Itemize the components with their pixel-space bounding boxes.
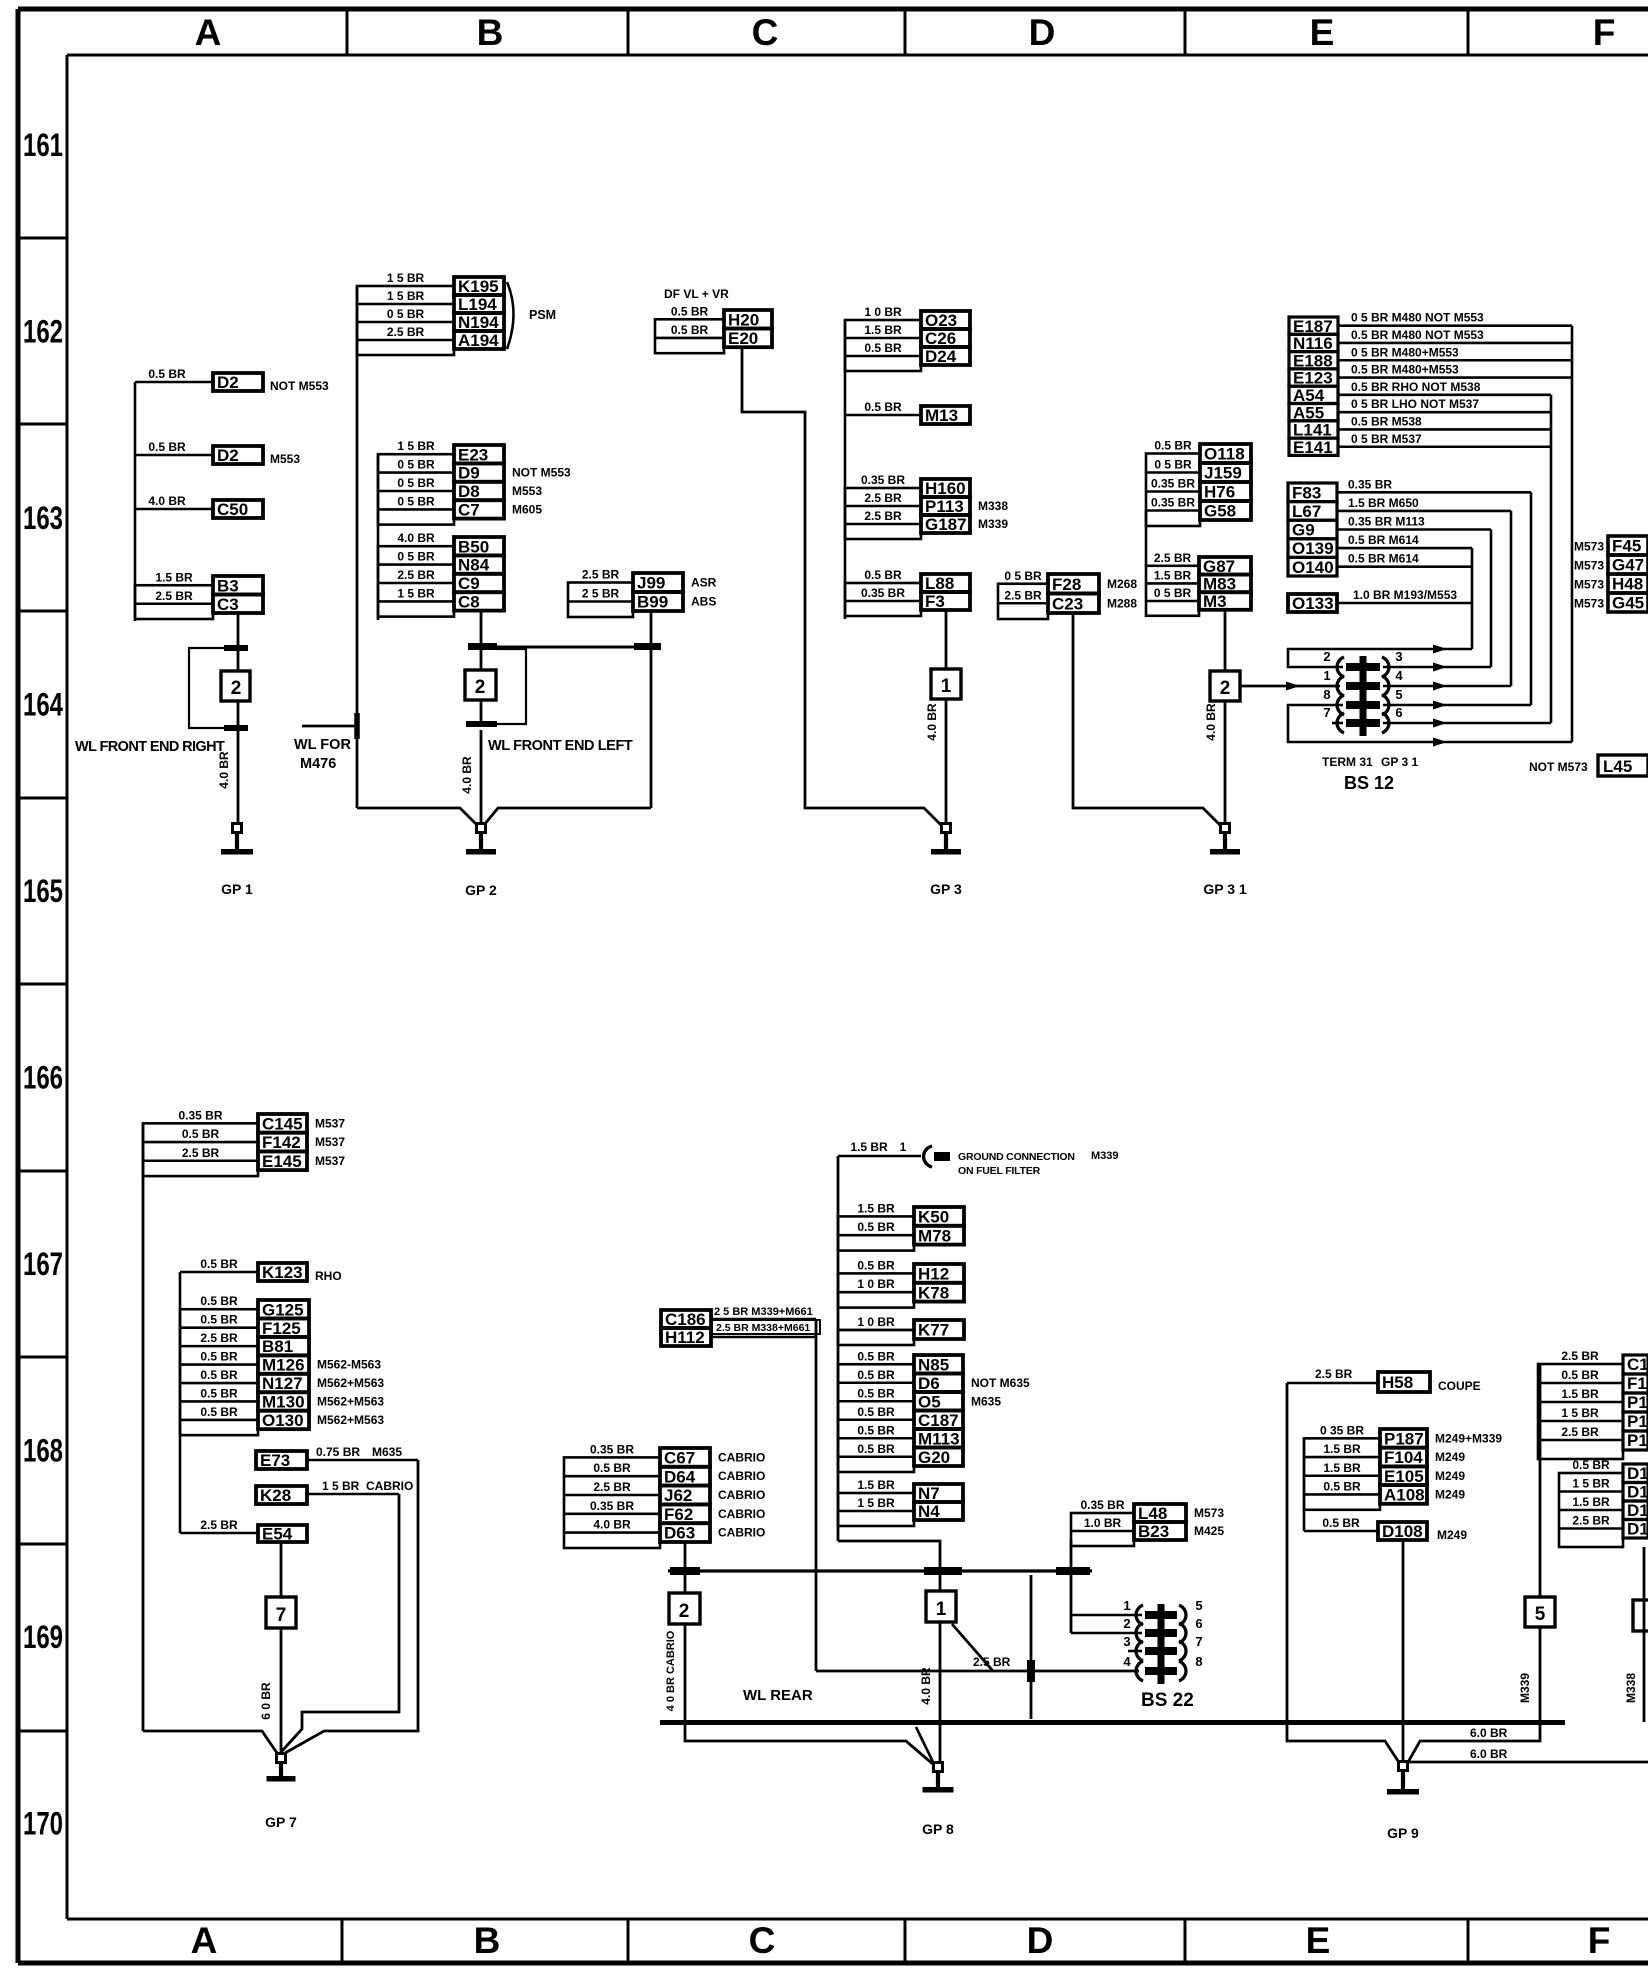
svg-text:GP 8: GP 8 [922, 1821, 954, 1837]
GP3 left bus wire [844, 320, 847, 619]
svg-text:164: 164 [23, 687, 63, 723]
svg-text:D1: D1 [1627, 1464, 1648, 1483]
wire BS12 pin4 [1383, 682, 1511, 691]
wire BS12 pin8 loop [1288, 705, 1572, 747]
terminal D108 [1304, 1516, 1467, 1542]
svg-text:C67: C67 [664, 1449, 695, 1468]
svg-text:1 5 BR: 1 5 BR [1561, 1406, 1599, 1420]
svg-text:F1: F1 [1627, 1374, 1647, 1393]
svg-text:0.5 BR M538: 0.5 BR M538 [1351, 414, 1422, 428]
GP2 left bus wire [356, 286, 359, 808]
wire 2.5 BR BS22 pin4 to connector 1 [816, 1624, 1139, 1682]
wire BS12 pin6 [1383, 719, 1551, 728]
svg-text:0 5 BR: 0 5 BR [387, 307, 425, 321]
connector 2 of GP31 [1210, 671, 1240, 701]
svg-text:0.5 BR: 0.5 BR [1561, 1368, 1599, 1382]
ground GP 1 [221, 824, 253, 898]
svg-text:F: F [1593, 12, 1616, 53]
svg-text:0 5 BR M537: 0 5 BR M537 [1351, 432, 1422, 446]
svg-text:P1: P1 [1627, 1393, 1648, 1412]
svg-text:4.0 BR: 4.0 BR [397, 531, 435, 545]
svg-text:M573: M573 [1574, 578, 1604, 592]
wire BS12 pin3 [1383, 663, 1491, 672]
column header band bottom [191, 1919, 1611, 1963]
svg-text:E54: E54 [262, 1525, 293, 1544]
svg-text:J159: J159 [1204, 464, 1242, 483]
svg-text:2.5 BR: 2.5 BR [1572, 1514, 1610, 1528]
svg-text:0 5 BR LHO NOT M537: 0 5 BR LHO NOT M537 [1351, 397, 1479, 411]
svg-text:M249+M339: M249+M339 [1435, 1431, 1502, 1445]
svg-text:2.5 BR: 2.5 BR [1004, 588, 1042, 602]
terminal stack F45 G47 H48 G45 (M573) [1574, 536, 1648, 613]
svg-text:B: B [474, 1920, 501, 1961]
svg-text:GP 3 1: GP 3 1 [1381, 755, 1418, 769]
svg-text:WL FRONT END LEFT: WL FRONT END LEFT [488, 738, 633, 754]
svg-text:2.5 BR: 2.5 BR [1561, 1349, 1599, 1363]
svg-text:2.5 BR: 2.5 BR [973, 1655, 1011, 1669]
svg-text:5: 5 [1395, 687, 1402, 702]
wire 4.0 BR CABRIO to GP8 bar [665, 1624, 685, 1722]
svg-text:C145: C145 [262, 1114, 303, 1133]
svg-text:2.5 BR: 2.5 BR [397, 568, 435, 582]
svg-text:M573: M573 [1194, 1506, 1224, 1520]
ground GP 2 [465, 824, 497, 899]
svg-text:K77: K77 [918, 1321, 949, 1340]
GP9 left bus wire [1286, 1383, 1289, 1722]
terminal M13 [845, 400, 970, 425]
wire K28 CABRIO to GP7 [282, 1494, 399, 1751]
svg-text:162: 162 [23, 314, 63, 350]
svg-text:B50: B50 [458, 537, 489, 556]
svg-text:H58: H58 [1382, 1373, 1413, 1392]
svg-text:CABRIO: CABRIO [366, 1479, 413, 1493]
svg-text:D1: D1 [1627, 1501, 1648, 1520]
svg-text:1.5 BR: 1.5 BR [1154, 568, 1192, 582]
svg-text:G9: G9 [1292, 521, 1315, 540]
svg-text:O140: O140 [1292, 558, 1334, 577]
svg-text:0.5 BR: 0.5 BR [857, 1368, 895, 1382]
svg-text:A108: A108 [1384, 1486, 1425, 1505]
svg-text:0 5 BR: 0 5 BR [397, 494, 435, 508]
svg-text:1: 1 [900, 1140, 907, 1154]
svg-text:C50: C50 [217, 500, 248, 519]
svg-text:F142: F142 [262, 1133, 301, 1152]
wire C8 to junction [480, 611, 483, 645]
terminal stack H160 P113 G187 [845, 473, 1008, 539]
wire riser junction bar to WL rear bar [1030, 1575, 1033, 1719]
svg-text:M339: M339 [1518, 1673, 1532, 1703]
svg-text:2.5 BR: 2.5 BR [387, 325, 425, 339]
svg-text:0.5 BR: 0.5 BR [857, 1258, 895, 1272]
junction bar above WL rear connectors [668, 1567, 1092, 1575]
svg-text:0.35 BR: 0.35 BR [590, 1499, 634, 1513]
svg-text:0.5 BR: 0.5 BR [148, 440, 186, 454]
svg-text:B3: B3 [217, 576, 239, 595]
svg-text:J99: J99 [637, 574, 665, 593]
svg-text:E105: E105 [1384, 1467, 1424, 1486]
svg-text:M605: M605 [512, 502, 542, 516]
svg-text:C1: C1 [1627, 1355, 1648, 1374]
svg-text:4.0 BR: 4.0 BR [919, 1667, 933, 1705]
svg-text:L67: L67 [1292, 502, 1321, 521]
svg-text:RHO: RHO [315, 1269, 342, 1283]
ground GP 7 [265, 1754, 297, 1831]
svg-text:2.5 BR: 2.5 BR [200, 1331, 238, 1345]
terminal stack B50 N84 C9 C8 [378, 531, 504, 616]
wire riser C186/H112 to 2.5BR rear wire [815, 1319, 818, 1671]
svg-text:6.0 BR: 6.0 BR [1470, 1747, 1508, 1761]
terminal stack K195 L194 N194 A194 (PSM) [357, 271, 504, 355]
svg-text:6: 6 [1195, 1616, 1202, 1631]
svg-text:0.5 BR M614: 0.5 BR M614 [1348, 552, 1419, 566]
svg-text:4.0 BR: 4.0 BR [148, 494, 186, 508]
svg-text:NOT M553: NOT M553 [512, 466, 571, 480]
wire F3 to connector 1 [945, 610, 948, 669]
svg-text:1.5 BR: 1.5 BR [857, 1201, 895, 1215]
svg-text:B23: B23 [1138, 1522, 1169, 1541]
svg-text:H76: H76 [1204, 483, 1235, 502]
svg-text:5: 5 [1535, 1604, 1546, 1625]
svg-text:C9: C9 [458, 574, 480, 593]
svg-text:M339: M339 [978, 517, 1008, 531]
terminal stack C67 D64 J62 F62 D63 (CABRIO) [564, 1442, 765, 1548]
svg-text:2.5 BR M338+M661: 2.5 BR M338+M661 [716, 1322, 810, 1334]
wire arrow GP31 to BS12 pin 1 [1240, 682, 1340, 691]
terminal stack H20 E20 [655, 304, 772, 353]
svg-text:1.5 BR: 1.5 BR [864, 323, 902, 337]
svg-text:1 0 BR: 1 0 BR [864, 305, 902, 319]
terminal stack G87 M83 M3 [1146, 551, 1251, 616]
M339 riser and connector 5 [1518, 1364, 1555, 1722]
left cells of C1 stack [1538, 1349, 1623, 1459]
svg-text:G45: G45 [1612, 594, 1644, 613]
wire BS12 pin5 [1383, 701, 1531, 710]
svg-text:F62: F62 [664, 1505, 693, 1524]
svg-text:E145: E145 [262, 1152, 302, 1171]
svg-text:F45: F45 [1612, 537, 1641, 556]
svg-text:E23: E23 [458, 445, 488, 464]
svg-text:B99: B99 [637, 593, 668, 612]
ground GP 9 [1387, 1762, 1419, 1842]
svg-text:0.5 BR: 0.5 BR [200, 1368, 238, 1382]
svg-text:1: 1 [1323, 668, 1330, 683]
svg-text:1 5 BR: 1 5 BR [322, 1479, 360, 1493]
svg-text:BS 12: BS 12 [1344, 773, 1394, 793]
svg-text:N85: N85 [918, 1355, 949, 1374]
svg-text:M339: M339 [1091, 1150, 1119, 1162]
svg-text:C: C [749, 1920, 776, 1961]
terminal stack N7 N4 [838, 1478, 963, 1526]
svg-text:PSM: PSM [529, 308, 556, 322]
svg-text:1.0 BR: 1.0 BR [1084, 1516, 1122, 1530]
wire E20 to GP3 [742, 347, 941, 825]
GP7 left bus wire [142, 1123, 145, 1731]
svg-text:BS 22: BS 22 [1141, 1690, 1194, 1711]
svg-text:CABRIO: CABRIO [718, 1469, 765, 1483]
terminal stack O118 J159 H76 G58 [1146, 439, 1251, 527]
terminal K77 [838, 1315, 964, 1345]
svg-text:1 0 BR: 1 0 BR [857, 1277, 895, 1291]
svg-text:E: E [1306, 1920, 1331, 1961]
svg-text:D9: D9 [458, 464, 480, 483]
wires F83 stack [1337, 477, 1531, 705]
svg-text:M562+M563: M562+M563 [317, 1394, 384, 1408]
svg-text:COUPE: COUPE [1438, 1379, 1481, 1393]
svg-text:4 0 BR CABRIO: 4 0 BR CABRIO [665, 1630, 677, 1711]
svg-text:0.5 BR: 0.5 BR [182, 1127, 220, 1141]
wire BS12 pin7 stub [1332, 722, 1343, 725]
svg-text:0.5 BR: 0.5 BR [671, 323, 709, 337]
svg-text:2.5 BR: 2.5 BR [200, 1518, 238, 1532]
wire BS22 pin3 stub [1128, 1650, 1142, 1653]
svg-text:N127: N127 [262, 1374, 303, 1393]
svg-text:0.5 BR: 0.5 BR [857, 1405, 895, 1419]
svg-text:0.5 BR: 0.5 BR [200, 1313, 238, 1327]
svg-text:CABRIO: CABRIO [718, 1526, 765, 1540]
svg-text:0.5 BR: 0.5 BR [1322, 1516, 1360, 1530]
svg-text:0.5 BR: 0.5 BR [1572, 1458, 1610, 1472]
svg-text:0.35 BR: 0.35 BR [178, 1108, 222, 1122]
svg-text:M635: M635 [372, 1445, 402, 1459]
svg-text:E73: E73 [260, 1451, 290, 1470]
svg-text:1 5 BR: 1 5 BR [397, 586, 435, 600]
svg-text:M476: M476 [300, 756, 336, 772]
svg-text:1.5 BR: 1.5 BR [1572, 1495, 1610, 1509]
wire 4.0 BR to GP31 [1204, 701, 1225, 823]
terminal stack H12 K78 [838, 1258, 964, 1307]
svg-text:A: A [195, 12, 222, 53]
svg-text:DF VL + VR: DF VL + VR [664, 287, 729, 301]
svg-text:G187: G187 [925, 515, 967, 534]
wire L48/B23 riser to BS22 pins 1-2 [1071, 1540, 1142, 1633]
svg-text:CABRIO: CABRIO [718, 1450, 765, 1464]
svg-text:M562-M563: M562-M563 [317, 1358, 381, 1372]
svg-text:M13: M13 [925, 406, 958, 425]
svg-text:6.0 BR: 6.0 BR [1470, 1726, 1508, 1740]
svg-text:C187: C187 [918, 1411, 959, 1430]
terminal C50 [148, 494, 263, 519]
wire 6.0 BR lower [1408, 1747, 1648, 1762]
svg-text:8: 8 [1195, 1654, 1202, 1669]
svg-text:6: 6 [1395, 705, 1402, 720]
svg-text:0 5 BR M480 NOT M553: 0 5 BR M480 NOT M553 [1351, 311, 1484, 325]
svg-text:O5: O5 [918, 1392, 941, 1411]
svg-text:0.5 BR: 0.5 BR [857, 1220, 895, 1234]
wire GP8 left merge [685, 1725, 934, 1765]
terminal stack E187 N116 E188 E123 A54 A55 L141 E141 [1289, 317, 1338, 457]
wire C23 to GP31 ground [1073, 613, 1220, 825]
svg-text:2.5 BR: 2.5 BR [1315, 1367, 1353, 1381]
svg-text:0.35 BR: 0.35 BR [590, 1442, 634, 1456]
svg-text:0.5 BR: 0.5 BR [200, 1386, 238, 1400]
terminal E54 [180, 1518, 307, 1544]
terminal stack F28 C23 [998, 569, 1137, 619]
terminal stack K50 M78 [838, 1201, 964, 1250]
svg-text:E20: E20 [728, 329, 758, 348]
splice BS 12 [1323, 649, 1403, 736]
svg-text:0 5 BR: 0 5 BR [397, 476, 435, 490]
svg-text:G20: G20 [918, 1448, 950, 1467]
svg-text:169: 169 [23, 1619, 63, 1655]
svg-text:N84: N84 [458, 556, 490, 575]
connector 2 of WL rear [669, 1593, 700, 1624]
svg-text:M573: M573 [1574, 597, 1604, 611]
terminal stack J99 B99 (ASR ABS) [568, 568, 717, 618]
svg-text:M553: M553 [270, 452, 300, 466]
svg-text:P1: P1 [1627, 1431, 1648, 1450]
svg-text:2.5 BR: 2.5 BR [593, 1480, 631, 1494]
svg-text:H48: H48 [1612, 575, 1643, 594]
svg-text:7: 7 [1195, 1634, 1202, 1649]
svg-text:G47: G47 [1612, 556, 1644, 575]
wire C3 to connector 2 [237, 613, 240, 645]
svg-text:0.5 BR: 0.5 BR [864, 568, 902, 582]
svg-text:M425: M425 [1194, 1524, 1224, 1538]
connector 2 of WL front end right [189, 645, 250, 731]
svg-text:5: 5 [1195, 1598, 1202, 1613]
svg-text:B81: B81 [262, 1337, 293, 1356]
svg-text:H20: H20 [728, 310, 759, 329]
svg-text:P1: P1 [1627, 1412, 1648, 1431]
svg-text:166: 166 [23, 1060, 63, 1096]
svg-text:0.35 BR: 0.35 BR [861, 473, 905, 487]
terminal stack E23 D9 D8 C7 [378, 439, 571, 524]
connector 1 of GP3 [931, 669, 961, 699]
svg-text:0.5 BR: 0.5 BR [671, 304, 709, 318]
svg-text:7: 7 [276, 1605, 287, 1626]
svg-text:0.35 BR: 0.35 BR [861, 586, 905, 600]
wire E54 to connector 7 [280, 1542, 283, 1597]
svg-text:WL FOR: WL FOR [294, 737, 351, 753]
wire BS12 pin2 loop [1288, 645, 1472, 668]
svg-text:2.5 BR: 2.5 BR [864, 509, 902, 523]
svg-text:D1: D1 [1627, 1520, 1648, 1539]
svg-text:161: 161 [23, 127, 63, 163]
svg-text:F3: F3 [925, 592, 945, 611]
terminal stack L88 F3 [845, 568, 970, 616]
svg-text:D108: D108 [1382, 1522, 1423, 1541]
svg-text:D64: D64 [664, 1467, 696, 1486]
wire WL FOR M476 stub [294, 713, 357, 772]
wire H112 M338+M661 (boxed label) [711, 1320, 820, 1337]
wire E73 M635 to GP7 [285, 1460, 418, 1753]
svg-text:A194: A194 [458, 331, 499, 350]
svg-text:0.5 BR: 0.5 BR [864, 341, 902, 355]
svg-text:2: 2 [475, 677, 486, 698]
svg-text:0.35 BR: 0.35 BR [1080, 1498, 1124, 1512]
wire D63 to connector 2 [684, 1542, 687, 1593]
svg-text:0.5 BR M480 NOT M553: 0.5 BR M480 NOT M553 [1351, 328, 1484, 342]
svg-text:M553: M553 [512, 484, 542, 498]
svg-text:0 5 BR: 0 5 BR [397, 458, 435, 472]
svg-text:4: 4 [1123, 1654, 1131, 1669]
wire 4.0 BR to GP1 [217, 731, 238, 823]
svg-text:1 5 BR: 1 5 BR [387, 289, 425, 303]
svg-text:D2: D2 [217, 373, 239, 392]
wire 4.0 BR to GP8 [919, 1622, 940, 1763]
svg-text:M537: M537 [315, 1154, 345, 1168]
svg-text:P187: P187 [1384, 1429, 1424, 1448]
svg-text:M249: M249 [1435, 1450, 1465, 1464]
svg-text:4.0 BR: 4.0 BR [460, 756, 474, 794]
svg-text:2: 2 [1123, 1616, 1130, 1631]
svg-text:F28: F28 [1052, 575, 1081, 594]
svg-text:0.5 BR: 0.5 BR [593, 1461, 631, 1475]
svg-text:168: 168 [23, 1433, 63, 1469]
terminal E73 [256, 1445, 418, 1470]
svg-text:0 5 BR: 0 5 BR [1154, 586, 1192, 600]
ground GP 8 [922, 1763, 954, 1838]
terminal K123 (RHO) [180, 1257, 342, 1283]
svg-text:1.0 BR M193/M553: 1.0 BR M193/M553 [1353, 588, 1457, 602]
svg-text:D6: D6 [918, 1374, 940, 1393]
svg-text:WL REAR: WL REAR [743, 1687, 813, 1704]
wire GP2 left merge [357, 808, 477, 825]
svg-text:0 5 BR M480+M553: 0 5 BR M480+M553 [1351, 345, 1459, 359]
wire bus E23-stack to B50-stack [377, 454, 380, 620]
terminal stack O23 C26 D24 [845, 305, 970, 371]
PSM brace and label [507, 282, 556, 349]
svg-text:G58: G58 [1204, 502, 1236, 521]
svg-text:D8: D8 [458, 482, 480, 501]
terminal D2 (M553) [148, 440, 300, 466]
svg-text:1.5 BR: 1.5 BR [1561, 1387, 1599, 1401]
svg-text:K78: K78 [918, 1283, 949, 1302]
svg-text:A: A [191, 1920, 218, 1961]
svg-text:E141: E141 [1293, 438, 1333, 457]
wires A54..E141 to M537/M538 splice riser [1338, 380, 1551, 723]
svg-text:165: 165 [23, 873, 63, 909]
svg-text:M113: M113 [918, 1429, 960, 1448]
terminal H58 (COUPE) [1287, 1367, 1481, 1393]
svg-text:M338: M338 [978, 499, 1008, 513]
svg-text:NOT M573: NOT M573 [1529, 760, 1588, 774]
svg-text:H12: H12 [918, 1265, 949, 1284]
svg-text:D24: D24 [925, 347, 957, 366]
svg-text:D1: D1 [1627, 1483, 1648, 1502]
svg-text:1 5 BR: 1 5 BR [1572, 1477, 1610, 1491]
svg-text:0.5 BR: 0.5 BR [148, 367, 186, 381]
splice BS 22 [1123, 1598, 1202, 1684]
svg-text:1.5 BR: 1.5 BR [1323, 1461, 1361, 1475]
terminal stack L48 B23 [1071, 1498, 1224, 1546]
svg-text:1.5 BR: 1.5 BR [155, 570, 193, 584]
svg-text:1: 1 [936, 1599, 947, 1620]
svg-text:M338: M338 [1624, 1673, 1638, 1703]
wire C186 M339+M661 [711, 1306, 816, 1319]
svg-text:GP 9: GP 9 [1387, 1825, 1419, 1841]
svg-text:1 5 BR: 1 5 BR [387, 271, 425, 285]
svg-text:0.35 BR: 0.35 BR [1151, 477, 1195, 491]
svg-text:M78: M78 [918, 1226, 951, 1245]
svg-text:M562+M563: M562+M563 [317, 1413, 384, 1427]
svg-text:F: F [1588, 1920, 1611, 1961]
terminal stack P187 F104 E105 A108 [1304, 1423, 1502, 1509]
svg-text:D: D [1027, 1920, 1054, 1961]
svg-text:1.5 BR: 1.5 BR [850, 1140, 888, 1154]
terminal stack G125 F125 B81 M126 N127 M130 O130 [180, 1294, 384, 1435]
svg-text:C7: C7 [458, 501, 480, 520]
wire bus O118-stack to G87-stack [1145, 510, 1148, 566]
svg-text:3: 3 [1123, 1634, 1130, 1649]
wire M3 to connector 2 [1224, 610, 1227, 671]
svg-text:M126: M126 [262, 1356, 305, 1375]
svg-text:M3: M3 [1203, 592, 1227, 611]
row number band [18, 127, 67, 1842]
svg-text:F125: F125 [262, 1319, 301, 1338]
column header band top [195, 9, 1616, 55]
svg-text:M288: M288 [1107, 596, 1137, 610]
